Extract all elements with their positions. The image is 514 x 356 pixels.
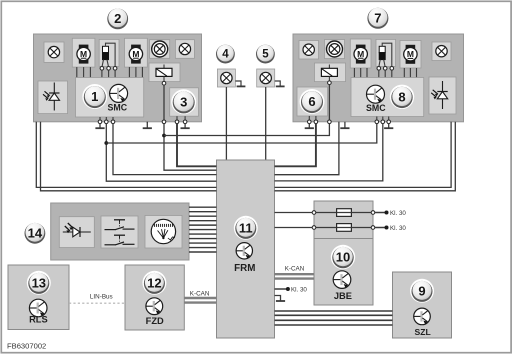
ground box6 pin1: [305, 124, 314, 128]
transistor icon FZD: [146, 298, 163, 315]
label K-CAN left: [190, 290, 210, 297]
wire relay right down: [328, 85, 330, 120]
svg-text:M: M: [80, 49, 87, 59]
wire cross B: [106, 124, 377, 143]
wire right outer B: [275, 122, 456, 191]
svg-text:M: M: [407, 49, 414, 59]
svg-text:10: 10: [336, 250, 350, 265]
ball 12: [142, 271, 166, 295]
label Kl30 fuse1: [390, 210, 406, 217]
wire SMC left 2 to FRM: [106, 124, 216, 181]
pin fuse1 left: [312, 211, 316, 215]
svg-text:Kl. 30: Kl. 30: [390, 225, 406, 232]
box 14 roof sensor unit: [51, 203, 189, 260]
motor M2 left mirror: [125, 38, 148, 67]
wire box6 stub2: [315, 116, 317, 120]
pin box6 1: [308, 120, 312, 124]
ground left block mid: [143, 122, 152, 128]
wire cross A: [164, 124, 329, 136]
wire lamp4 to FRM: [225, 87, 227, 160]
lamp unit 4: [217, 69, 235, 87]
svg-text:3: 3: [180, 94, 187, 109]
label SZL: [414, 327, 430, 337]
ground lamp 5: [275, 81, 285, 86]
transistor icon SZL: [414, 308, 431, 325]
wire left outer B: [41, 122, 217, 191]
wire motor M1 pins: [77, 67, 91, 77]
svg-text:9: 9: [418, 283, 425, 298]
ball 14: [23, 221, 47, 245]
K-CAN pair FRM to JBE: [275, 274, 315, 278]
relay K1 left: [149, 63, 180, 83]
LED photodiode right: [429, 77, 456, 114]
ball 5: [255, 43, 277, 65]
svg-text:12: 12: [147, 275, 161, 290]
wire SMC left stubs: [100, 117, 113, 120]
svg-text:LIN-Bus: LIN-Bus: [90, 294, 113, 301]
pin SMC left 3: [111, 120, 115, 124]
svg-text:14: 14: [28, 225, 43, 240]
svg-text:RLS: RLS: [29, 315, 48, 325]
ball 11: [234, 216, 258, 240]
transistor icon SMC left: [110, 84, 128, 102]
motor M1 left window: [72, 38, 95, 67]
wires box14 to FRM: [189, 207, 217, 252]
wire left outer A: [36, 122, 216, 188]
wire box6 stub1: [308, 116, 310, 120]
label SMC left: [108, 103, 128, 113]
relay K2 right: [315, 63, 346, 83]
wire box6 pin2 to FRM: [275, 124, 316, 167]
relay node right: [328, 81, 332, 85]
wire SMC right stubs: [377, 117, 389, 120]
pin fuse1 right: [371, 211, 375, 215]
label Kl30 fuse2: [390, 225, 406, 232]
label JBE: [334, 291, 352, 301]
ball 3: [171, 89, 196, 114]
pin box3 2: [183, 120, 187, 124]
fuse F1: [337, 209, 373, 217]
svg-text:SMC: SMC: [108, 103, 128, 113]
svg-text:4: 4: [222, 49, 229, 61]
svg-text:8: 8: [398, 89, 405, 104]
svg-text:11: 11: [239, 220, 253, 235]
wire motor M4 pins: [404, 68, 416, 78]
label SMC right: [366, 103, 386, 113]
lamp E2 left: [175, 40, 194, 59]
svg-text:FZD: FZD: [146, 316, 164, 326]
transistor icon RLS: [29, 299, 47, 317]
wire SMC right2 to FRM: [275, 124, 383, 181]
svg-text:13: 13: [32, 275, 46, 290]
wire fuse1 Kl30: [375, 211, 389, 215]
lamp E3 right: [299, 41, 319, 60]
box 6 right: [297, 87, 328, 116]
svg-text:1: 1: [91, 89, 98, 104]
pin fuse2 left: [312, 226, 316, 230]
wire lamp5 to FRM: [265, 87, 267, 160]
JBE divider: [314, 238, 373, 240]
transistor icon SMC right: [367, 85, 385, 103]
svg-text:JBE: JBE: [334, 291, 352, 301]
K-CAN pair FZD to FRM: [184, 298, 216, 303]
pin SMC left 2: [105, 120, 109, 124]
FRM module box: [217, 160, 275, 338]
pin SMC right 1: [375, 120, 379, 124]
door lock actuator left: [99, 39, 119, 77]
svg-text:2: 2: [114, 11, 121, 26]
SMC module box left: [76, 78, 144, 118]
svg-text:K-CAN: K-CAN: [190, 290, 210, 297]
svg-text:SZL: SZL: [414, 327, 430, 337]
svg-text:6: 6: [308, 94, 315, 109]
JBE module box: [314, 201, 373, 305]
svg-text:Kl. 30: Kl. 30: [390, 210, 406, 217]
wire relay left to FRM: [164, 124, 217, 170]
ball 4: [215, 43, 237, 65]
wire FRM to fuse2: [275, 227, 337, 229]
wire box3 stub2: [184, 116, 186, 120]
driver door block: [34, 34, 202, 122]
LED photodiode left: [38, 81, 68, 114]
label Kl30 FRM: [291, 287, 307, 294]
photodiode icon box14: [59, 217, 94, 248]
transistor icon FRM: [236, 243, 252, 259]
lamp unit 5: [257, 69, 275, 87]
ball 2: [106, 6, 130, 30]
svg-text:K-CAN: K-CAN: [285, 265, 305, 272]
svg-text:M: M: [132, 49, 139, 59]
wire box3 pin1 to FRM: [177, 124, 217, 167]
pin relay left: [162, 120, 166, 124]
label LIN-Bus: [90, 294, 113, 301]
box 3 left: [170, 88, 199, 116]
FZD module box: [125, 265, 184, 330]
SMC module box right: [351, 78, 424, 117]
passenger door block: [293, 34, 464, 122]
wire motor M3 pins: [354, 68, 367, 78]
pin box6 2: [314, 120, 318, 124]
wire relay left down: [163, 85, 165, 120]
LIN-Bus dashed wire: [69, 302, 125, 304]
label RLS: [29, 315, 48, 325]
relay node left: [162, 81, 166, 85]
wires FRM to SZL: [275, 311, 393, 325]
lamp E4 right: [432, 42, 451, 61]
wire SMC right3 to FRM: [275, 122, 339, 175]
ground lamp 4: [235, 81, 245, 86]
ground SMC right 3: [384, 124, 393, 128]
ball 6: [300, 89, 325, 114]
double lamp left: [150, 40, 170, 59]
ball 7: [366, 6, 390, 30]
double lamp right: [325, 40, 345, 59]
wire SMC left 3 to FRM: [113, 124, 217, 175]
ground FRM right: [275, 296, 286, 302]
label K-CAN right: [285, 265, 305, 272]
junction dot cross B: [104, 141, 108, 145]
wire FRM Kl30: [275, 287, 290, 291]
lamp E1 left: [44, 42, 64, 62]
ground box3 pin2: [181, 124, 190, 128]
svg-text:7: 7: [374, 10, 381, 25]
wire box3 stub1: [176, 116, 178, 120]
gauge icon box14: [145, 216, 182, 249]
motor M4 right mirror: [400, 41, 421, 69]
svg-text:SMC: SMC: [366, 103, 386, 113]
wire FRM to fuse1: [275, 212, 337, 214]
label FZD: [146, 316, 164, 326]
wire fuse2 Kl30: [375, 226, 389, 230]
fuse F2: [337, 224, 373, 232]
svg-text:FRM: FRM: [234, 263, 255, 274]
svg-text:FB6307002: FB6307002: [7, 341, 46, 350]
door lock actuator right: [376, 39, 396, 77]
pin fuse2 right: [371, 226, 375, 230]
transistor icon JBE: [333, 271, 351, 289]
SZL module box: [393, 272, 452, 338]
RLS module box: [8, 265, 69, 330]
ground pin SMC left 1: [95, 120, 104, 128]
pin SMC right 2: [381, 120, 385, 124]
svg-text:5: 5: [262, 49, 269, 61]
junction dot cross A: [162, 134, 166, 138]
wire right outer A: [275, 122, 452, 188]
ball 13: [27, 271, 51, 295]
ball 10: [331, 245, 355, 269]
pin box3 1: [175, 120, 179, 124]
ball 9: [410, 279, 434, 303]
motor M3 right window: [350, 39, 371, 68]
pin relay right: [328, 120, 332, 124]
label FRM: [234, 263, 255, 274]
label FB6307002: [7, 341, 46, 350]
svg-text:M: M: [357, 49, 364, 59]
svg-text:Kl. 30: Kl. 30: [291, 287, 307, 294]
pin SMC right 3: [387, 120, 391, 124]
ball 1: [82, 84, 107, 109]
switch icon box14: [101, 216, 138, 248]
wire motor M2 pins: [129, 67, 142, 77]
ball 8: [390, 85, 414, 109]
ground right block mid: [340, 122, 349, 128]
